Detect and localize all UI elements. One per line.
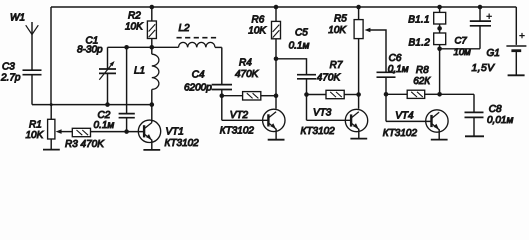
svg-text:R3 470K: R3 470K — [65, 139, 105, 150]
svg-text:6200p: 6200p — [184, 83, 212, 94]
svg-text:10K: 10K — [248, 25, 267, 36]
svg-text:2.7p: 2.7p — [0, 73, 21, 84]
svg-text:R1: R1 — [29, 119, 42, 130]
svg-text:C8: C8 — [489, 104, 502, 115]
svg-text:B1.1: B1.1 — [408, 15, 430, 26]
svg-text:1,5V: 1,5V — [472, 63, 496, 74]
svg-text:VT1: VT1 — [166, 126, 184, 137]
svg-text:10K: 10K — [26, 130, 45, 141]
svg-text:R8: R8 — [416, 65, 429, 76]
svg-text:КТ3102: КТ3102 — [301, 126, 336, 137]
svg-text:R5: R5 — [334, 14, 347, 25]
svg-text:470K: 470K — [317, 73, 342, 84]
svg-text:C4: C4 — [192, 70, 205, 81]
svg-text:0,1м: 0,1м — [388, 64, 409, 75]
svg-text:L2: L2 — [179, 23, 191, 34]
svg-text:L1: L1 — [134, 66, 145, 77]
svg-text:10K: 10K — [328, 25, 347, 36]
svg-text:10K: 10K — [125, 21, 144, 32]
svg-text:C5: C5 — [295, 28, 308, 39]
svg-text:R7: R7 — [330, 60, 343, 71]
svg-text:0.1м: 0.1м — [289, 41, 310, 52]
svg-text:КТ3102: КТ3102 — [383, 128, 418, 139]
svg-text:R4: R4 — [239, 57, 252, 68]
svg-text:VT3: VT3 — [313, 108, 332, 119]
svg-text:C3: C3 — [2, 62, 15, 73]
svg-text:C6: C6 — [389, 53, 402, 64]
svg-text:8-30p: 8-30p — [77, 45, 103, 56]
svg-text:470K: 470K — [235, 69, 260, 80]
svg-text:G1: G1 — [487, 48, 500, 59]
svg-text:VT4: VT4 — [395, 110, 414, 121]
svg-text:0.1м: 0.1м — [94, 120, 115, 131]
svg-text:C7: C7 — [455, 36, 468, 47]
svg-text:62К: 62К — [413, 76, 431, 87]
svg-text:VT2: VT2 — [230, 110, 249, 121]
svg-text:0,01м: 0,01м — [487, 115, 513, 126]
svg-text:B1.2: B1.2 — [409, 38, 431, 49]
svg-text:R6: R6 — [252, 14, 265, 25]
svg-text:КТ3102: КТ3102 — [220, 126, 255, 137]
svg-text:W1: W1 — [10, 13, 25, 24]
svg-text:КТ3102: КТ3102 — [165, 138, 200, 149]
svg-text:10м: 10м — [454, 47, 472, 58]
svg-text:R2: R2 — [128, 11, 141, 22]
